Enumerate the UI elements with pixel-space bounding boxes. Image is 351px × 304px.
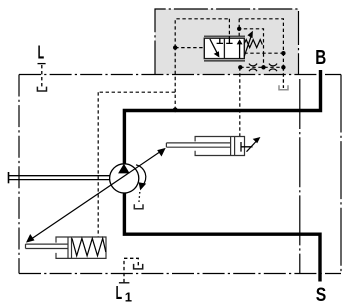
stroking cylinder max-stop and adjuster	[241, 137, 260, 152]
valve flow path arrow (left position)	[210, 39, 220, 58]
counter spring cylinder C2	[26, 237, 107, 258]
pump outlet triangle	[118, 164, 130, 174]
control pilot dashed rectangle (left)	[175, 19, 229, 48]
pilot bottom row with orifices	[240, 66, 283, 68]
pump drain port bracket	[134, 204, 143, 209]
valve blocked port T (left square)	[217, 38, 223, 43]
valve up-flow arrow (right position)	[237, 39, 243, 58]
stroking cylinder C1	[166, 137, 244, 156]
orifice X2	[269, 64, 277, 72]
pilot drop to valve top port	[228, 19, 230, 36]
node row left	[238, 65, 242, 69]
valve blocked port T (right square)	[226, 36, 232, 43]
control valve V1 body	[204, 36, 245, 61]
pilot line to valve left end	[175, 47, 204, 49]
wire: pilot drop to stroking cylinder	[239, 67, 241, 136]
svg-text:B: B	[315, 47, 326, 69]
pump case drain dotted line	[139, 192, 140, 204]
port L bracket	[37, 87, 46, 91]
pilot riser to control valve	[174, 48, 176, 93]
control pilot dashed rectangle (right)	[239, 19, 283, 68]
node row right	[281, 65, 285, 69]
node row middle	[261, 65, 265, 69]
plugged gauge port bracket	[279, 85, 288, 90]
inner boundary line	[299, 79, 301, 274]
port L label	[38, 43, 46, 64]
drive shaft	[9, 172, 110, 183]
counter spring	[72, 238, 106, 255]
pilot drop to spring box	[238, 19, 240, 29]
port L1 bracket	[134, 264, 143, 269]
pilot line network left	[98, 92, 175, 237]
spring feedback dashed box	[239, 29, 283, 68]
port L1 label	[116, 283, 132, 304]
valve spring (adjustable)	[244, 31, 262, 57]
port L dashed stem	[41, 65, 43, 89]
node pilot-valve junction	[173, 45, 177, 49]
svg-text:S: S	[316, 285, 327, 304]
pump U1 circle	[110, 164, 139, 193]
svg-text:L: L	[38, 43, 45, 63]
port L1 dashed link	[124, 258, 138, 282]
wire: main suction line S	[123, 193, 320, 282]
wire: drop to plugged gauge port	[282, 67, 284, 88]
node feedback corner	[281, 51, 285, 55]
unit enclosure boundary	[19, 75, 341, 274]
orifice X1	[249, 64, 257, 72]
node spring box corner	[237, 27, 241, 31]
variable displacement arrow	[26, 148, 166, 243]
rotation direction arc	[136, 165, 146, 191]
wire: main pressure line B	[124, 70, 322, 164]
svg-text:1: 1	[125, 289, 132, 304]
controller gray housing	[155, 9, 299, 75]
svg-text:L: L	[116, 283, 123, 303]
node on pressure line	[173, 107, 178, 112]
